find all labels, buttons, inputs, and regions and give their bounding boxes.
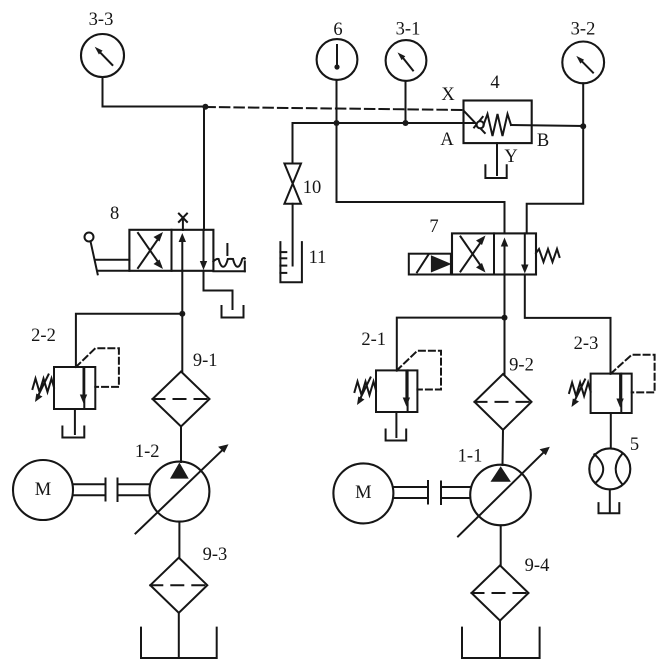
svg-text:2-2: 2-2 xyxy=(31,326,56,346)
svg-text:9-2: 9-2 xyxy=(509,356,534,376)
svg-text:M: M xyxy=(35,480,51,500)
svg-text:3-3: 3-3 xyxy=(89,10,114,30)
svg-text:Y: Y xyxy=(504,147,517,167)
svg-text:11: 11 xyxy=(309,248,327,268)
svg-text:1-2: 1-2 xyxy=(135,442,160,462)
svg-text:2-1: 2-1 xyxy=(361,330,386,350)
svg-text:M: M xyxy=(355,483,371,503)
svg-text:3-2: 3-2 xyxy=(571,20,596,40)
svg-text:4: 4 xyxy=(490,73,499,93)
svg-text:9-3: 9-3 xyxy=(203,545,228,565)
svg-text:X: X xyxy=(441,85,455,105)
svg-text:9-1: 9-1 xyxy=(193,351,218,371)
svg-text:2-3: 2-3 xyxy=(574,334,599,354)
svg-text:1-1: 1-1 xyxy=(458,447,483,467)
svg-text:9-4: 9-4 xyxy=(525,556,550,576)
svg-text:6: 6 xyxy=(333,20,342,40)
svg-text:8: 8 xyxy=(110,204,119,224)
svg-text:10: 10 xyxy=(303,178,322,198)
svg-text:3-1: 3-1 xyxy=(396,20,421,40)
svg-text:7: 7 xyxy=(429,217,438,237)
svg-text:5: 5 xyxy=(630,435,639,455)
svg-text:B: B xyxy=(537,131,549,151)
svg-text:A: A xyxy=(440,130,454,150)
